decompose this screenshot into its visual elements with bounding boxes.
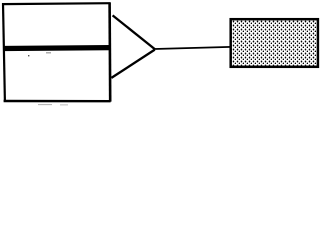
wire bottom edge of block [4,100,111,103]
speckle [28,55,29,56]
wire output lead [154,47,231,49]
speckle [38,103,52,106]
wire left edge of block [3,3,5,101]
node divider bar (thick middle line) [4,45,111,51]
op-amp A1 (amplifier triangle) [111,15,154,78]
speckle [46,51,51,54]
wire right edge of block [108,3,111,102]
wire top edge of block [2,2,111,5]
source block U1 (two stacked cells) [2,3,111,102]
load Z1 (halftone shaded box) [231,19,318,67]
